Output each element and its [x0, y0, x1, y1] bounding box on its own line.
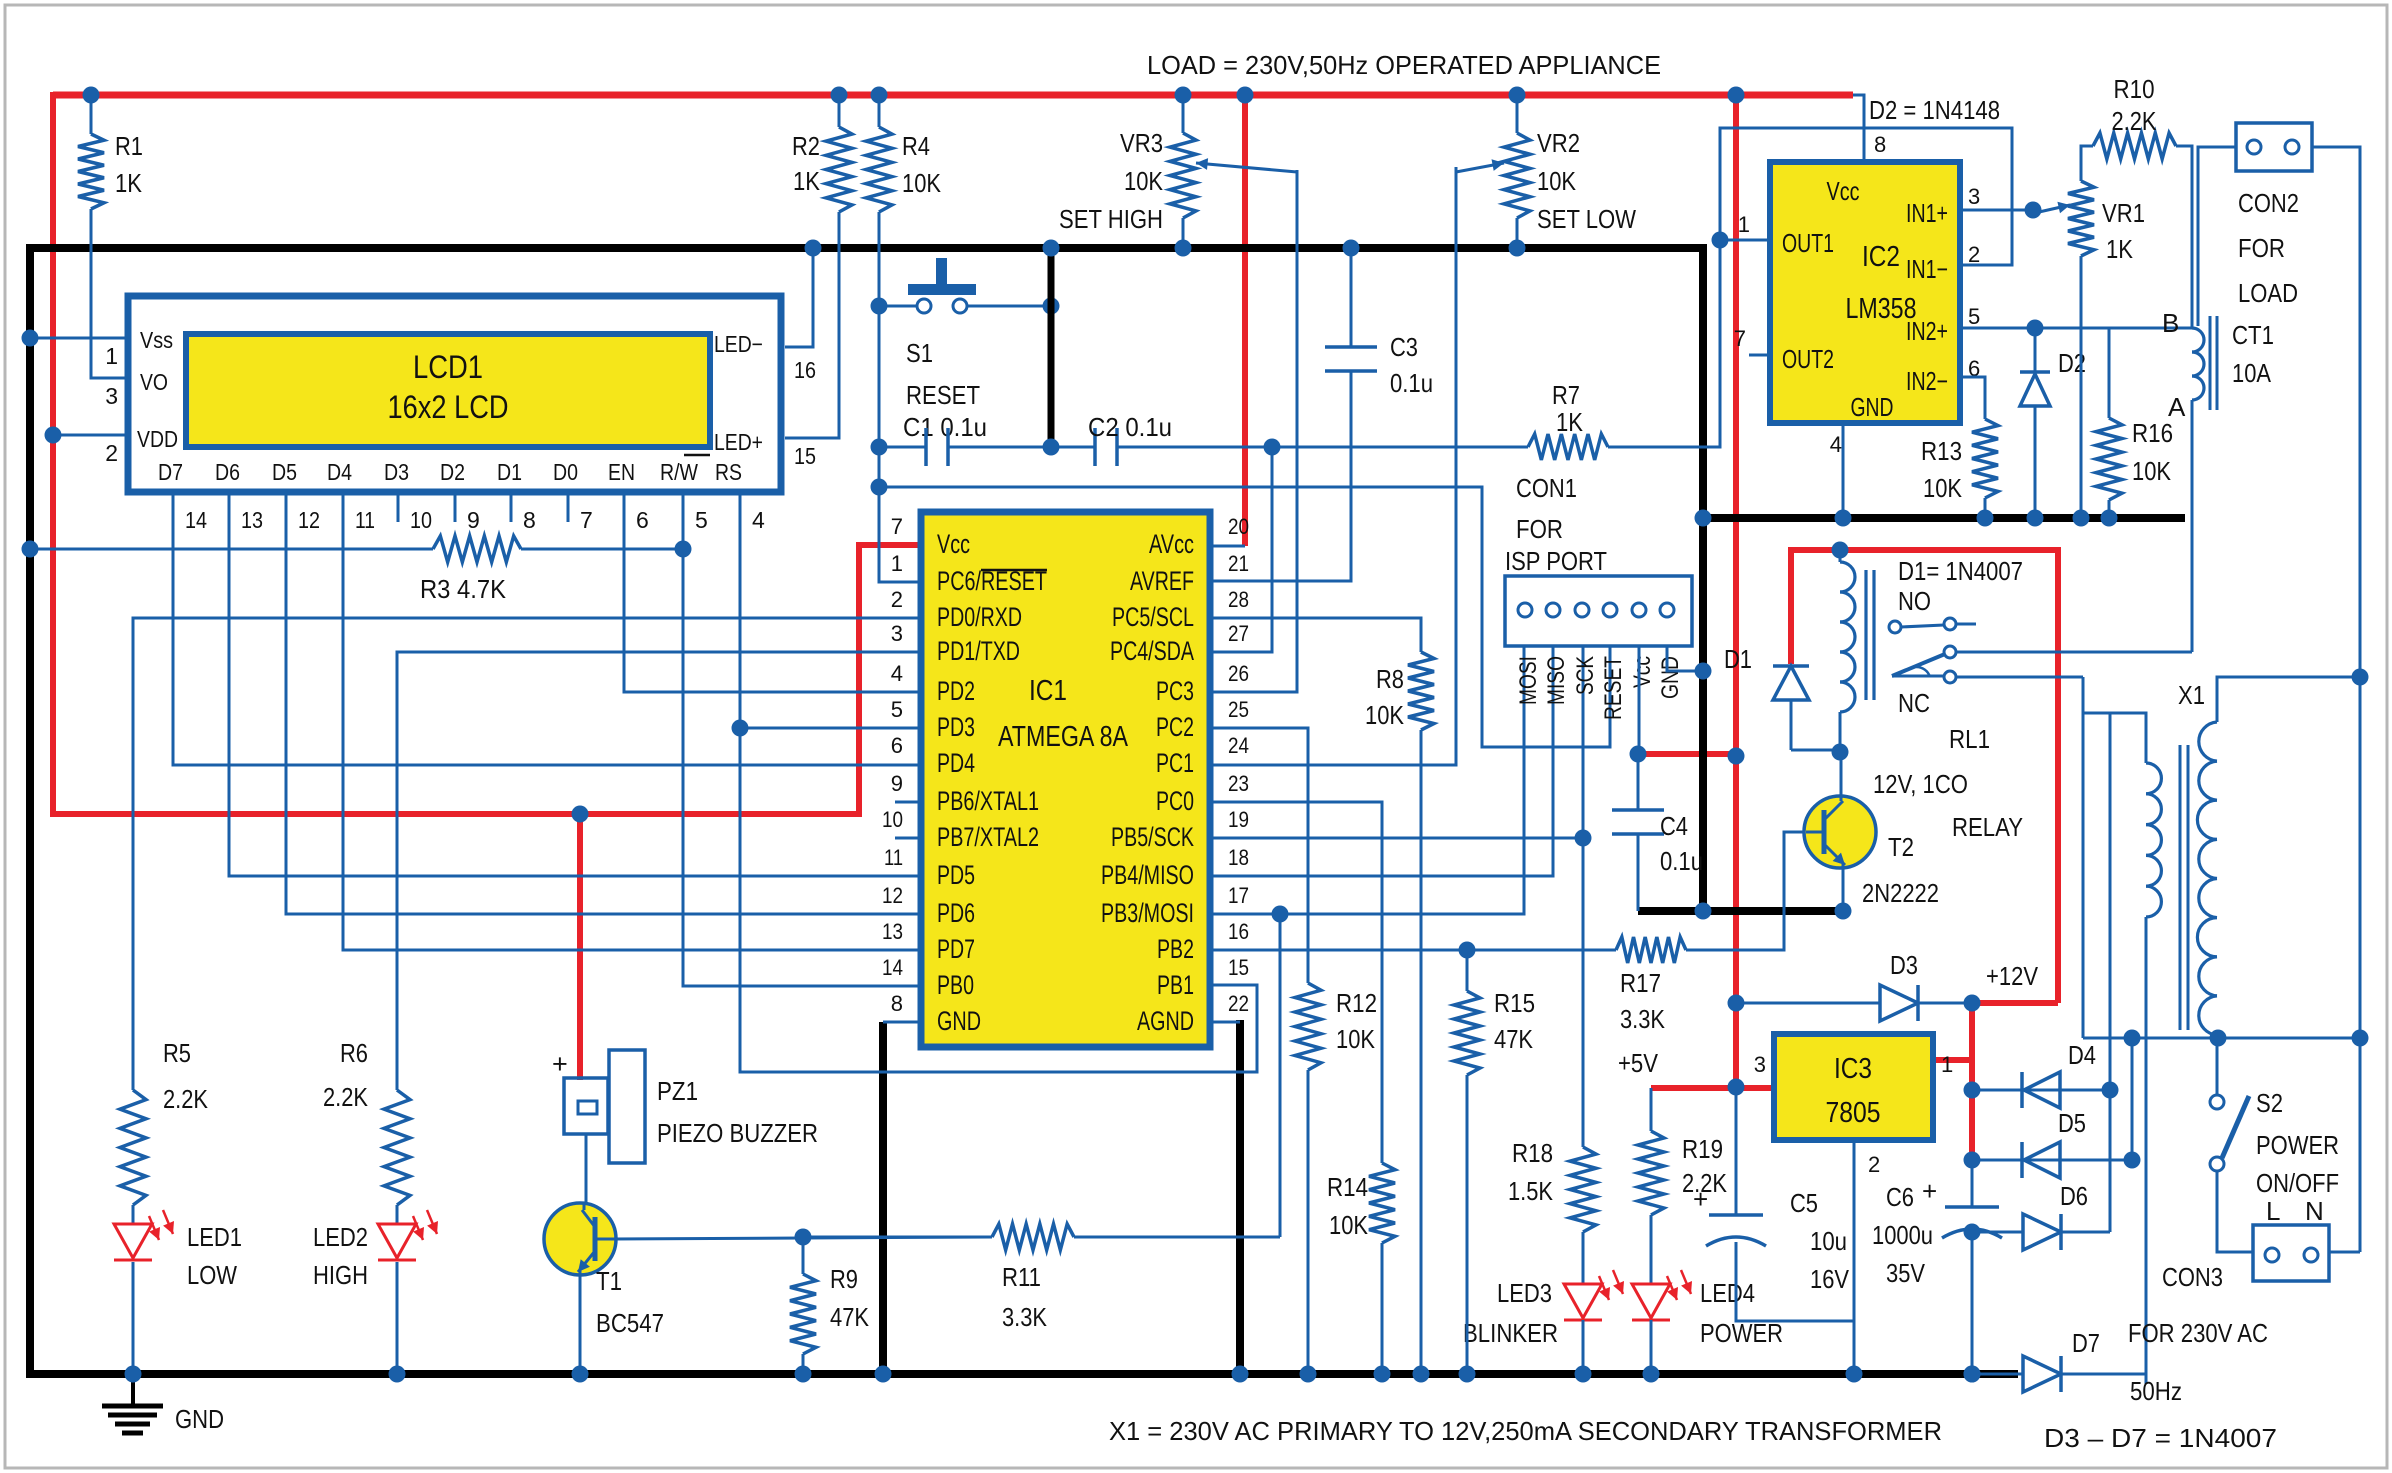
- svg-text:PC3: PC3: [1156, 676, 1194, 706]
- wire R8 to gnd: [1420, 730, 1423, 1374]
- wire VR2 wiper to PC1: [1210, 167, 1456, 765]
- junction gnd8 bottom: [875, 1366, 892, 1383]
- svg-text:RL1: RL1: [1949, 724, 1990, 754]
- wire VR1 bottom gnd: [2080, 256, 2083, 518]
- switch S1: [908, 284, 976, 295]
- svg-text:1: 1: [105, 343, 118, 369]
- svg-text:PIEZO BUZZER: PIEZO BUZZER: [657, 1118, 818, 1148]
- svg-text:MISO: MISO: [1543, 656, 1570, 705]
- svg-text:FOR 230V AC: FOR 230V AC: [2128, 1318, 2268, 1348]
- wire CON3 N lead: [2329, 1251, 2360, 1254]
- wire R12 to gnd: [1307, 1070, 1310, 1374]
- svg-text:IN1−: IN1−: [1906, 254, 1948, 284]
- svg-text:IN2−: IN2−: [1906, 366, 1948, 396]
- wire D6 to PD5: [229, 492, 921, 876]
- svg-text:3: 3: [891, 621, 903, 646]
- svg-text:IC3: IC3: [1834, 1053, 1872, 1085]
- svg-text:D1: D1: [1724, 644, 1752, 674]
- svg-text:IC2: IC2: [1862, 241, 1900, 273]
- junction VR2 top: [1509, 87, 1526, 104]
- wire R10 left to VR1: [2081, 146, 2093, 181]
- wire AVREF row: [1210, 580, 1351, 583]
- wire IC2 GND pin4: [1842, 423, 1845, 518]
- svg-text:3: 3: [105, 383, 118, 409]
- svg-text:VO: VO: [140, 369, 168, 395]
- junction R16 gnd: [2101, 510, 2118, 527]
- svg-text:28: 28: [1228, 587, 1249, 612]
- junction ISP GND: [1695, 663, 1712, 680]
- wire CON2 right lead: [2312, 147, 2360, 1252]
- wire R9 col: [802, 1237, 805, 1274]
- LED LED4: [1632, 1284, 1670, 1318]
- junction MOSI R11: [1272, 906, 1289, 923]
- svg-text:PD7: PD7: [937, 934, 975, 964]
- svg-text:R11: R11: [1002, 1262, 1041, 1292]
- wire gnd left column: [26, 244, 34, 1378]
- svg-text:SET LOW: SET LOW: [1537, 204, 1636, 234]
- wire RESET net: [879, 487, 1610, 747]
- svg-text:RELAY: RELAY: [1952, 812, 2023, 842]
- svg-text:22: 22: [1228, 991, 1249, 1016]
- svg-text:PB4/MISO: PB4/MISO: [1101, 860, 1194, 890]
- svg-text:IN2+: IN2+: [1906, 316, 1948, 346]
- svg-text:19: 19: [1228, 807, 1249, 832]
- svg-text:R16: R16: [2132, 418, 2173, 448]
- CON1 pin circle 1: [1518, 603, 1532, 617]
- junction D4 left: [1964, 1082, 1981, 1099]
- svg-text:2.2K: 2.2K: [323, 1082, 369, 1112]
- svg-text:20: 20: [1228, 514, 1249, 539]
- svg-text:CON3: CON3: [2162, 1262, 2223, 1292]
- wire RS to PB1: [740, 728, 1257, 1072]
- svg-text:PC0: PC0: [1156, 786, 1194, 816]
- svg-text:D5: D5: [272, 459, 297, 485]
- LED LED3: [1564, 1284, 1602, 1318]
- svg-text:PZ1: PZ1: [657, 1076, 698, 1106]
- svg-text:BLINKER: BLINKER: [1463, 1318, 1558, 1348]
- junction R1 top: [83, 87, 100, 104]
- current transformer CT1 coil: [2192, 328, 2204, 352]
- svg-text:C4: C4: [1660, 811, 1688, 841]
- junction D5 col: [2124, 1030, 2141, 1047]
- junction LED1 gnd: [125, 1366, 142, 1383]
- wire black S1 column: [1048, 248, 1055, 447]
- svg-text:12: 12: [882, 883, 903, 908]
- svg-text:23: 23: [1228, 771, 1249, 796]
- svg-text:11: 11: [884, 845, 903, 870]
- junction S1 col bottom: [1043, 439, 1060, 456]
- svg-text:GND: GND: [937, 1006, 981, 1036]
- junction CON2 col sec: [2352, 669, 2369, 686]
- svg-text:1K: 1K: [793, 166, 821, 196]
- svg-text:PB3/MOSI: PB3/MOSI: [1101, 898, 1194, 928]
- junction D6 left: [1964, 1224, 1981, 1241]
- svg-text:ISP PORT: ISP PORT: [1505, 546, 1607, 576]
- junction R2 top: [831, 87, 848, 104]
- wire gnd AGND column: [1236, 1020, 1244, 1378]
- svg-text:X1 = 230V AC PRIMARY TO 12V,25: X1 = 230V AC PRIMARY TO 12V,250mA SECOND…: [1109, 1416, 1942, 1446]
- junction VR1 gnd: [2073, 510, 2090, 527]
- IC2 box: [1770, 162, 1960, 423]
- svg-text:Vcc: Vcc: [1629, 656, 1656, 688]
- svg-text:PD1/TXD: PD1/TXD: [937, 636, 1020, 666]
- wire NC to X1 area: [2082, 677, 2085, 1038]
- junction relay red top: [1832, 542, 1849, 559]
- wire gnd bottom rail: [26, 1370, 2018, 1378]
- svg-text:D1= 1N4007: D1= 1N4007: [1898, 556, 2023, 586]
- svg-text:AVcc: AVcc: [1149, 529, 1194, 559]
- svg-text:PD0/RXD: PD0/RXD: [937, 602, 1022, 632]
- svg-text:12: 12: [298, 507, 320, 533]
- capacitor C6: [1971, 1160, 1974, 1207]
- junction D2 gnd: [2027, 510, 2044, 527]
- wire IN2+ row: [1960, 327, 2192, 330]
- svg-text:ATMEGA 8A: ATMEGA 8A: [998, 721, 1129, 753]
- svg-text:26: 26: [1228, 661, 1249, 686]
- svg-text:6: 6: [891, 733, 903, 758]
- wire CON2 left lead: [2198, 147, 2236, 326]
- capacitor C1: [879, 446, 926, 449]
- resistor R8: [1408, 652, 1434, 730]
- svg-text:1: 1: [1738, 212, 1750, 237]
- resistor R14: [1369, 1163, 1395, 1243]
- svg-text:PB0: PB0: [937, 970, 974, 1000]
- junction C1 left: [871, 439, 888, 456]
- CON1 box: [1505, 576, 1692, 646]
- svg-text:7: 7: [1734, 326, 1746, 351]
- svg-text:5: 5: [695, 507, 708, 533]
- svg-text:C3: C3: [1390, 332, 1418, 362]
- junction VR3 top: [1175, 87, 1192, 104]
- wire X1 primary top: [2083, 713, 2146, 763]
- wire gnd pin8 column: [879, 1022, 887, 1378]
- resistor R6: [384, 1090, 410, 1205]
- wire RS to PD3: [740, 492, 921, 728]
- relay contact COM: [1944, 646, 1956, 658]
- wire X1 secondary bottom: [2216, 1035, 2219, 1038]
- capacitor C4: [1637, 754, 1640, 810]
- svg-text:D4: D4: [2068, 1040, 2096, 1070]
- connector CON2: [2236, 123, 2312, 171]
- LED LED2: [378, 1224, 416, 1258]
- svg-text:8: 8: [891, 991, 903, 1016]
- resistor R13: [1972, 419, 1998, 498]
- diode D3: [1736, 1002, 1880, 1005]
- junction CON2 col row1038: [2352, 1030, 2369, 1047]
- junction D2 top: [2027, 320, 2044, 337]
- wire D2 stub: [454, 492, 457, 522]
- wire AGND pin22: [1210, 1021, 1240, 1024]
- svg-text:1K: 1K: [1556, 407, 1584, 437]
- wire LED- to gnd rail: [785, 248, 813, 347]
- junction VDD red: [45, 427, 62, 444]
- diode D2: [2034, 328, 2037, 372]
- junction gnd col relay bar: [1695, 903, 1712, 920]
- junction T2 emitter gnd: [1835, 903, 1852, 920]
- svg-text:47K: 47K: [830, 1302, 870, 1332]
- wire red relay +12V loop: [1791, 550, 2058, 1003]
- svg-text:B: B: [2162, 308, 2179, 338]
- svg-text:0.1u: 0.1u: [1660, 846, 1703, 876]
- connector CON3: [2253, 1225, 2329, 1281]
- svg-text:T2: T2: [1888, 832, 1914, 862]
- junction R13 gnd: [1977, 510, 1994, 527]
- svg-text:1: 1: [891, 551, 903, 576]
- junction R15 gnd: [1459, 1366, 1476, 1383]
- junction LED4 gnd: [1643, 1366, 1660, 1383]
- wire LED3 gnd: [1582, 1320, 1585, 1374]
- svg-text:D3: D3: [1890, 950, 1918, 980]
- svg-text:10: 10: [410, 507, 432, 533]
- wire OUT1 stub: [1720, 239, 1770, 242]
- svg-text:D1: D1: [497, 459, 522, 485]
- svg-text:R15: R15: [1494, 988, 1535, 1018]
- wire +5V top rail (red): [53, 92, 1853, 99]
- wire EN to PD2: [624, 492, 921, 692]
- CON1 pin circle 6: [1660, 603, 1674, 617]
- wire IC2 Vcc pin8: [1853, 95, 1864, 162]
- CON1 pin circle 5: [1632, 603, 1646, 617]
- relay arm: [1892, 654, 1945, 676]
- junction AGND bottom: [1232, 1366, 1249, 1383]
- svg-text:PB7/XTAL2: PB7/XTAL2: [937, 822, 1039, 852]
- svg-text:R/W: R/W: [660, 459, 698, 485]
- wire S2 bottom to CON3: [2217, 1171, 2253, 1252]
- wire gnd right column: [1699, 244, 1707, 911]
- wire R16 gnd: [2108, 500, 2111, 518]
- svg-text:LOAD: LOAD: [2238, 278, 2298, 308]
- wire SCK stub up: [1582, 646, 1585, 838]
- wire R15 top: [1466, 950, 1469, 991]
- wire gnd relay bar: [1638, 907, 1843, 915]
- svg-text:5: 5: [891, 697, 903, 722]
- wire VDD to +5V: [53, 434, 128, 437]
- svg-text:1: 1: [1941, 1052, 1953, 1077]
- junction D3 left: [1728, 995, 1745, 1012]
- svg-text:2: 2: [105, 440, 118, 466]
- svg-text:LED2: LED2: [313, 1222, 368, 1252]
- resistor R1: [90, 95, 93, 134]
- transformer X1 primary: [2146, 763, 2161, 794]
- resistor R12: [1295, 983, 1321, 1070]
- svg-text:D3: D3: [384, 459, 409, 485]
- diode D5: [1972, 1159, 2060, 1162]
- svg-text:PD5: PD5: [937, 860, 975, 890]
- svg-text:+12V: +12V: [1986, 961, 2039, 991]
- svg-text:21: 21: [1228, 551, 1249, 576]
- CON1 pin circle 2: [1546, 603, 1560, 617]
- svg-text:10K: 10K: [1124, 166, 1164, 196]
- wire PC0 to R14: [1210, 802, 1382, 1163]
- svg-text:1000u: 1000u: [1872, 1220, 1933, 1250]
- junction S1 right: [1043, 298, 1060, 315]
- svg-text:3.3K: 3.3K: [1620, 1004, 1666, 1034]
- svg-text:10: 10: [882, 807, 903, 832]
- svg-text:C2 0.1u: C2 0.1u: [1088, 412, 1172, 442]
- svg-text:POWER: POWER: [2256, 1130, 2339, 1160]
- junction C3 top: [1343, 240, 1360, 257]
- svg-text:R9: R9: [830, 1264, 858, 1294]
- svg-text:C5: C5: [1790, 1188, 1818, 1218]
- svg-text:PB1: PB1: [1157, 970, 1194, 1000]
- wire ISP Vcc: [1638, 646, 1641, 754]
- resistor R11: [1074, 1236, 1280, 1239]
- svg-text:10K: 10K: [1329, 1210, 1369, 1240]
- svg-text:LED+: LED+: [714, 429, 763, 455]
- wire buzzer to T1: [585, 1134, 588, 1204]
- svg-text:2: 2: [891, 587, 903, 612]
- junction R4 top: [871, 87, 888, 104]
- junction D4 right: [2102, 1082, 2119, 1099]
- svg-text:PD3: PD3: [937, 712, 975, 742]
- svg-text:10K: 10K: [1923, 473, 1963, 503]
- potentiometer VR2: [1516, 95, 1519, 133]
- wire D4 to PD7: [343, 492, 921, 950]
- resistor R15: [1454, 991, 1480, 1075]
- junction Vss gnd: [22, 330, 39, 347]
- svg-text:ON/OFF: ON/OFF: [2256, 1168, 2339, 1198]
- svg-text:MOSI: MOSI: [1515, 656, 1542, 705]
- junction VR2 bottom: [1509, 240, 1526, 257]
- svg-text:+: +: [1922, 1176, 1937, 1206]
- svg-text:16V: 16V: [1810, 1264, 1850, 1294]
- svg-text:PC4/SDA: PC4/SDA: [1110, 636, 1194, 666]
- junction relay coil bottom: [1832, 744, 1849, 761]
- svg-text:SET HIGH: SET HIGH: [1059, 204, 1163, 234]
- svg-text:R7: R7: [1552, 380, 1580, 410]
- IC1 XTAL2 stub: [895, 837, 921, 840]
- capacitor C5: [1735, 1087, 1738, 1215]
- svg-text:Vcc: Vcc: [1827, 176, 1860, 206]
- svg-text:D7: D7: [158, 459, 183, 485]
- svg-text:D6: D6: [215, 459, 240, 485]
- svg-text:7: 7: [891, 514, 903, 539]
- wire R14 to gnd: [1381, 1243, 1384, 1374]
- wire R17 to T2 base: [1686, 832, 1806, 950]
- svg-text:R1: R1: [115, 131, 143, 161]
- svg-text:GND: GND: [1657, 656, 1684, 699]
- potentiometer VR1: [2068, 181, 2094, 256]
- wire PD0 to R5: [133, 618, 921, 1090]
- wire CT1 A to relay COM: [2191, 400, 2194, 652]
- svg-text:Vcc: Vcc: [937, 529, 970, 559]
- svg-text:18: 18: [1228, 845, 1249, 870]
- svg-text:10K: 10K: [1365, 700, 1405, 730]
- svg-text:OUT2: OUT2: [1782, 344, 1834, 374]
- wire SCK to R18: [1582, 838, 1585, 1147]
- wire bridge mid column: [2109, 713, 2112, 1232]
- svg-text:+5V: +5V: [1618, 1048, 1659, 1078]
- junction LED3 gnd: [1575, 1366, 1592, 1383]
- wire R15 gnd: [1466, 1075, 1469, 1374]
- svg-text:N: N: [2305, 1196, 2324, 1226]
- svg-text:25: 25: [1228, 697, 1249, 722]
- wire D7 to PD4: [173, 492, 921, 765]
- svg-text:A: A: [2168, 392, 2186, 422]
- svg-text:12V, 1CO: 12V, 1CO: [1873, 769, 1968, 799]
- svg-text:CT1: CT1: [2232, 320, 2274, 350]
- wire R13 gnd: [1984, 498, 1987, 518]
- svg-text:13: 13: [882, 919, 903, 944]
- wire D1 stub: [510, 492, 513, 522]
- relay contact NO: [1889, 621, 1901, 633]
- wire PC2 to R12: [1210, 728, 1308, 983]
- svg-text:17: 17: [1228, 883, 1249, 908]
- wire X1 primary bottom to D7: [2145, 917, 2148, 1384]
- svg-text:R4: R4: [902, 131, 930, 161]
- svg-text:S1: S1: [906, 338, 933, 368]
- svg-text:C1 0.1u: C1 0.1u: [903, 412, 987, 442]
- resistor R9: [790, 1274, 816, 1354]
- IC1 RESET overline: [981, 569, 1047, 572]
- svg-text:R2: R2: [792, 131, 820, 161]
- junction ISP Vcc: [1630, 746, 1647, 763]
- svg-text:11: 11: [355, 507, 375, 533]
- transformer X1 secondary: [2199, 722, 2217, 761]
- CON1 pin circle 4: [1603, 603, 1617, 617]
- svg-text:LOW: LOW: [187, 1260, 237, 1290]
- svg-text:R18: R18: [1512, 1138, 1553, 1168]
- junction RW R3: [675, 541, 692, 558]
- junction VR1 wiper: [2025, 202, 2042, 219]
- LCD1 screen: [186, 334, 710, 447]
- svg-text:R19: R19: [1682, 1134, 1723, 1164]
- junction LED2 gnd: [389, 1366, 406, 1383]
- wire red +12V row: [1972, 1000, 2058, 1006]
- diode D1: [1773, 666, 1809, 700]
- svg-text:IN1+: IN1+: [1906, 198, 1948, 228]
- potentiometer VR3: [1182, 95, 1185, 133]
- transistor T1: [544, 1203, 616, 1275]
- junction D5 left: [1964, 1152, 1981, 1169]
- svg-text:VR2: VR2: [1537, 128, 1580, 158]
- svg-text:10u: 10u: [1810, 1226, 1847, 1256]
- junction buzzer red: [572, 806, 589, 823]
- svg-text:NC: NC: [1898, 688, 1930, 718]
- junction R14 gnd: [1374, 1366, 1391, 1383]
- svg-text:X1: X1: [2178, 680, 2205, 710]
- svg-text:10K: 10K: [1336, 1024, 1376, 1054]
- wire R11 up lead: [1279, 914, 1282, 1237]
- wire R16 column: [2108, 328, 2111, 418]
- svg-text:R13: R13: [1921, 436, 1962, 466]
- resistor R10: [2093, 133, 2176, 159]
- junction T1 emitter gnd: [572, 1366, 589, 1383]
- diode D7: [1972, 1373, 2023, 1376]
- ground symbol GND: [131, 1374, 135, 1406]
- svg-text:VR1: VR1: [2102, 198, 2145, 228]
- wire mains row: [2083, 1037, 2360, 1040]
- svg-text:NO: NO: [1898, 586, 1931, 616]
- svg-text:1K: 1K: [2106, 234, 2134, 264]
- svg-text:4: 4: [891, 661, 903, 686]
- svg-text:RESET: RESET: [906, 380, 980, 410]
- svg-text:2N2222: 2N2222: [1862, 878, 1939, 908]
- svg-text:50Hz: 50Hz: [2130, 1376, 2182, 1406]
- wire S2 top: [2216, 1038, 2219, 1095]
- svg-text:Vss: Vss: [140, 327, 173, 353]
- svg-text:4: 4: [752, 507, 765, 533]
- svg-text:S2: S2: [2256, 1088, 2283, 1118]
- X1 core bars: [2179, 745, 2182, 1030]
- wire R19 to LED4: [1650, 1215, 1653, 1284]
- svg-text:1K: 1K: [115, 168, 143, 198]
- svg-text:24: 24: [1228, 733, 1249, 758]
- junction sec bottom: [2210, 1030, 2227, 1047]
- wire red +5V column: [1733, 95, 1739, 1087]
- junction R9 top: [795, 1229, 812, 1246]
- junction OUT1: [1712, 232, 1729, 249]
